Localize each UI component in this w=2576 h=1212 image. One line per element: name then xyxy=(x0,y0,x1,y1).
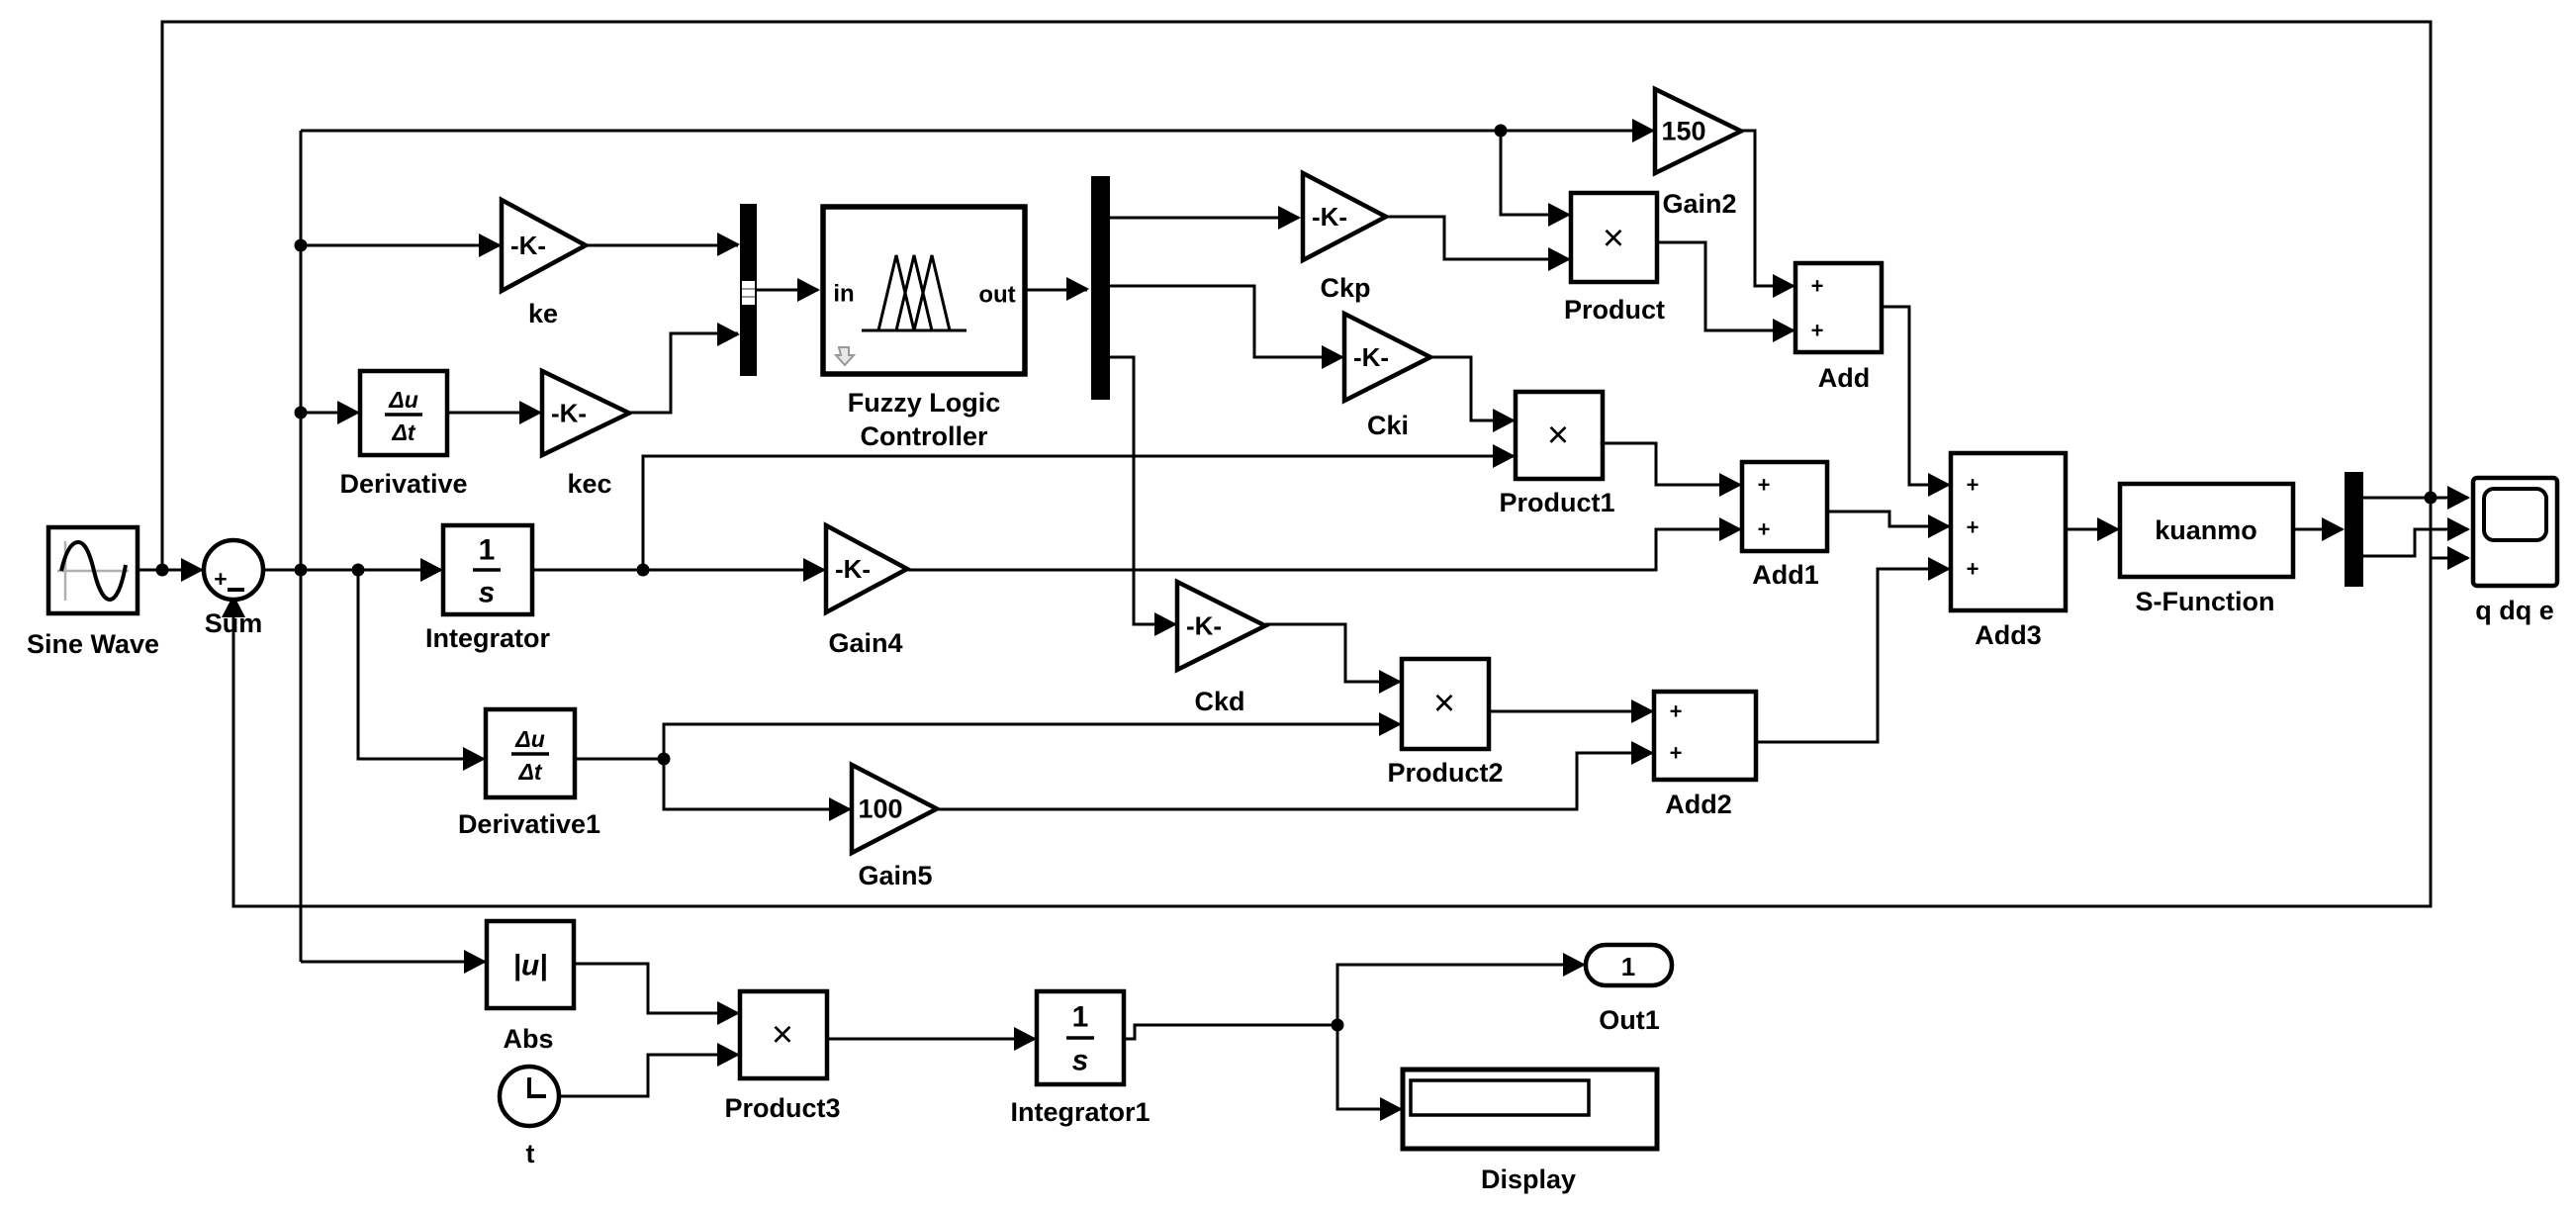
svg-text:S-Function: S-Function xyxy=(2136,587,2275,616)
gain block Cki (-K-) xyxy=(1344,314,1430,401)
wire Gain5 output to Add2 input 2 xyxy=(937,753,1652,809)
svg-text:1: 1 xyxy=(479,534,496,567)
svg-text:Product: Product xyxy=(1564,295,1665,325)
wire Derivative1 down to Gain5 xyxy=(664,759,850,809)
sum block Add xyxy=(1795,263,1882,352)
svg-text:Gain5: Gain5 xyxy=(858,861,932,890)
gain block Gain5 (100) xyxy=(852,765,937,853)
hand cursor icon xyxy=(836,347,854,365)
demux block Demux (black bar) xyxy=(1091,176,1110,400)
svg-text:Out1: Out1 xyxy=(1599,1005,1660,1035)
wire ke output to Mux input 1 xyxy=(586,244,738,247)
svg-text:out: out xyxy=(978,282,1015,309)
gain block Ckd (-K-) xyxy=(1177,582,1265,670)
wire Derivative output to kec xyxy=(447,412,540,415)
display block Display xyxy=(1403,1070,1657,1149)
wire Integrator1 output xyxy=(1124,1025,1337,1039)
svg-text:150: 150 xyxy=(1661,117,1705,146)
wire Demux port3 to Ckd xyxy=(1110,357,1175,624)
svg-text:×: × xyxy=(1433,683,1455,724)
wire Product2 output to Add2 input 1 xyxy=(1489,710,1652,713)
svg-text:s: s xyxy=(479,577,496,609)
svg-text:Product3: Product3 xyxy=(724,1093,840,1123)
svg-text:Add3: Add3 xyxy=(1975,620,2042,650)
wire FLC output to Demux xyxy=(1025,289,1087,292)
wire Sum output down to Derivative1 xyxy=(358,570,484,759)
node branch to e-line and Abs xyxy=(295,564,308,577)
wire Sum output to Integrator xyxy=(263,569,441,572)
node branch to Derivative1 xyxy=(352,564,365,577)
wire Product3 output to Integrator1 xyxy=(827,1038,1035,1041)
wire Cki output to Product1 input 1 xyxy=(1430,357,1514,420)
product block Product2 xyxy=(1402,659,1489,749)
svg-text:s: s xyxy=(1072,1045,1089,1077)
svg-text:1: 1 xyxy=(1621,952,1635,981)
abs block Abs (|u|) xyxy=(487,921,574,1008)
mux block Mux (black bar) xyxy=(740,204,757,376)
node sine output junction xyxy=(156,564,169,577)
svg-text:Δt: Δt xyxy=(391,420,415,445)
svg-text:kuanmo: kuanmo xyxy=(2155,515,2257,545)
svg-text:-K-: -K- xyxy=(551,399,587,428)
wire Mux1 port2 to Scope input 2 xyxy=(2363,529,2468,556)
wire down to Display xyxy=(1337,1025,1401,1109)
node Integrator1 output junction xyxy=(1332,1019,1344,1032)
svg-text:Product1: Product1 xyxy=(1499,488,1614,517)
svg-text:Gain4: Gain4 xyxy=(828,628,902,658)
wire Integrator output up to Product1 input 2 xyxy=(643,456,1514,570)
svg-text:×: × xyxy=(1547,415,1569,456)
svg-text:Controller: Controller xyxy=(860,421,987,451)
svg-text:Ckp: Ckp xyxy=(1320,273,1370,303)
gain block kec (-K-) xyxy=(542,371,629,455)
svg-text:kec: kec xyxy=(567,469,611,499)
wire S-Function output to Mux1 xyxy=(2293,528,2343,531)
wire e signal vertical x=304 xyxy=(300,131,303,962)
gain block Gain4 (-K-) xyxy=(826,525,907,612)
svg-text:Fuzzy Logic: Fuzzy Logic xyxy=(848,388,1001,418)
wire Abs output to Product3 input 1 xyxy=(574,964,738,1013)
derivative block Derivative (du/dt) xyxy=(360,371,447,455)
svg-text:+: + xyxy=(1758,517,1771,542)
integrator block Integrator1 (1/s) xyxy=(1037,991,1124,1084)
wire Add output to Add3 input 1 xyxy=(1882,307,1949,485)
svg-text:Add1: Add1 xyxy=(1752,560,1819,590)
svg-text:Derivative1: Derivative1 xyxy=(458,809,600,839)
svg-text:q dq e: q dq e xyxy=(2475,596,2554,625)
wire Derivative1 output xyxy=(575,758,664,761)
wire feedback line to Scope input 3 xyxy=(2431,557,2468,560)
wire Add3 output to S-Function xyxy=(2066,528,2118,531)
sum block Add2 xyxy=(1654,692,1756,780)
svg-text:Integrator1: Integrator1 xyxy=(1010,1097,1150,1127)
wire e down to Abs xyxy=(301,961,485,964)
gain block Gain2 (150) xyxy=(1655,89,1741,173)
svg-text:t: t xyxy=(526,1139,535,1168)
wire Demux port2 to Cki xyxy=(1110,286,1342,357)
sum block Add1 xyxy=(1742,462,1827,551)
svg-text:Δu: Δu xyxy=(388,387,418,413)
svg-text:×: × xyxy=(772,1014,793,1056)
source block Sine Wave xyxy=(48,527,138,613)
wire top feedback line xyxy=(162,22,2431,906)
clock block t xyxy=(500,1067,559,1126)
svg-text:-K-: -K- xyxy=(510,231,546,260)
svg-text:+: + xyxy=(1670,699,1683,724)
svg-text:Integrator: Integrator xyxy=(425,623,551,653)
svg-text:-K-: -K- xyxy=(1186,611,1222,641)
wire Ckd output to Product2 input 1 xyxy=(1265,624,1400,682)
wire Product1 output to Add1 input 1 xyxy=(1603,443,1740,485)
svg-text:+: + xyxy=(1758,473,1771,498)
wire Gain4 output to Add1 input 2 xyxy=(907,529,1740,570)
svg-text:+: + xyxy=(1670,741,1683,766)
membership function icon xyxy=(862,255,966,330)
outport block Out1 (1) xyxy=(1586,945,1672,985)
integrator block Integrator (1/s) xyxy=(443,525,532,614)
svg-text:+: + xyxy=(1811,274,1824,299)
sum block Sum xyxy=(204,540,263,600)
svg-text:Δt: Δt xyxy=(517,759,542,785)
wire Add1 output to Add3 input 2 xyxy=(1827,512,1949,526)
node feedback junction at scope input 1 xyxy=(2425,492,2438,505)
wire Demux port1 to Ckp xyxy=(1110,217,1299,220)
wire Gain2 output to Add input 1 xyxy=(1741,131,1794,286)
wire Product output to Add input 2 xyxy=(1657,242,1794,330)
svg-text:-K-: -K- xyxy=(1312,202,1347,232)
svg-text:+: + xyxy=(1967,557,1979,582)
node e to ke branch xyxy=(295,239,308,252)
svg-text:1: 1 xyxy=(1072,1001,1089,1034)
svg-text:-K-: -K- xyxy=(1353,342,1389,372)
svg-text:Gain2: Gain2 xyxy=(1662,189,1736,219)
wire Ckp output to Product input 2 xyxy=(1386,217,1569,259)
svg-text:Sine Wave: Sine Wave xyxy=(27,629,159,659)
svg-text:Sum: Sum xyxy=(205,608,263,638)
product block Product xyxy=(1571,193,1657,282)
svg-text:in: in xyxy=(833,281,854,308)
svg-text:100: 100 xyxy=(858,794,902,824)
subsystem block Fuzzy Logic Controller xyxy=(823,207,1025,374)
wire Integrator output to Gain4 xyxy=(532,569,824,572)
svg-text:Add2: Add2 xyxy=(1665,790,1732,819)
wire Sine Wave output xyxy=(138,569,202,572)
svg-text:Ckd: Ckd xyxy=(1194,687,1244,716)
node Integrator output junction xyxy=(637,564,650,577)
svg-text:+: + xyxy=(1967,473,1979,498)
svg-text:-K-: -K- xyxy=(835,554,871,584)
svg-text:+: + xyxy=(1811,319,1824,343)
svg-text:Display: Display xyxy=(1481,1165,1576,1194)
wire Add2 output to Add3 input 3 xyxy=(1756,569,1949,742)
s-function block kuanmo xyxy=(2120,484,2293,577)
svg-text:ke: ke xyxy=(528,299,558,328)
svg-text:|u|: |u| xyxy=(512,950,547,982)
svg-text:×: × xyxy=(1603,218,1624,259)
sum block Add3 xyxy=(1951,453,2066,610)
wire e-line to Gain2 xyxy=(301,130,1653,133)
wire e to Derivative xyxy=(301,412,358,415)
derivative block Derivative1 (du/dt) xyxy=(486,709,575,797)
product block Product3 xyxy=(740,991,827,1078)
product block Product1 xyxy=(1516,392,1603,479)
svg-text:Δu: Δu xyxy=(514,726,545,752)
wire up to Out1 xyxy=(1337,965,1584,1025)
scope block q dq e xyxy=(2473,478,2557,586)
svg-text:+: + xyxy=(214,566,227,592)
wire Mux output to Fuzzy Logic Controller xyxy=(757,289,818,292)
wire kec output to Mux input 2 xyxy=(629,333,738,413)
wire e to ke gain xyxy=(301,244,500,247)
gain block Ckp (-K-) xyxy=(1303,173,1386,260)
node e to Derivative branch xyxy=(295,407,308,420)
wire e-line down to Product input 1 xyxy=(1501,131,1569,215)
mux block Mux1 (black bar) xyxy=(2345,472,2363,587)
gain block ke (-K-) xyxy=(502,200,586,291)
wire Clock output to Product3 input 2 xyxy=(559,1055,738,1096)
wire Mux1 port1 to Scope input 1 xyxy=(2363,497,2468,500)
node e-line to Product branch xyxy=(1495,125,1508,138)
svg-text:+: + xyxy=(1967,515,1979,540)
wire Derivative1 up to Product2 input 2 xyxy=(664,724,1400,759)
svg-text:Abs: Abs xyxy=(503,1024,553,1054)
svg-text:Cki: Cki xyxy=(1367,411,1409,440)
svg-text:Derivative: Derivative xyxy=(339,469,467,499)
node Derivative1 output junction xyxy=(658,753,671,766)
svg-text:Add: Add xyxy=(1818,363,1870,393)
wire Sum minus input arrow xyxy=(222,595,245,617)
svg-text:Product2: Product2 xyxy=(1387,758,1503,788)
